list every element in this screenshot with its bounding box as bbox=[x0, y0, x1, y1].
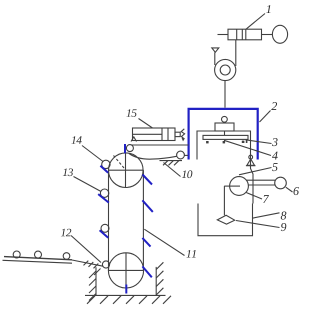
cylinder 15 piston line a bbox=[161, 128, 163, 141]
blue tick bottom pulley right bbox=[142, 266, 151, 277]
ramp end hatch 4 bbox=[94, 269, 101, 276]
roller 10 support hatch 3 bbox=[174, 161, 179, 166]
bucket circle mid bbox=[101, 224, 109, 232]
cylinder 15 body bbox=[133, 128, 176, 141]
left wall hatch 2 bbox=[89, 279, 96, 286]
exhaust triangle bbox=[212, 48, 219, 52]
label 3 bbox=[272, 138, 278, 146]
valve 1 body bbox=[228, 29, 262, 40]
baseline hatch 3 bbox=[113, 296, 121, 304]
ramp roller 3 bbox=[63, 253, 70, 260]
left wall hatch 1 bbox=[89, 271, 96, 278]
baseline hatch 7 bbox=[163, 296, 171, 304]
pointer 9 bbox=[236, 221, 280, 228]
baseline hatch 1 bbox=[87, 296, 95, 304]
bucket circle 13 bbox=[100, 189, 108, 197]
crank shaft down bbox=[223, 186, 225, 215]
roller 10 support hatch 2 bbox=[169, 161, 174, 166]
bottom pulley bbox=[108, 253, 143, 288]
bucket circle 14 bbox=[102, 160, 110, 168]
ramp roller 1 bbox=[13, 251, 20, 258]
cylinder 15 rod stub bbox=[175, 132, 180, 136]
valve U1 lead wire left bbox=[218, 34, 229, 36]
label 1 bbox=[266, 5, 270, 13]
support baseline bbox=[85, 294, 166, 296]
right wall hatch 2 bbox=[156, 271, 163, 278]
block on bar bbox=[215, 123, 234, 131]
ramp top line bbox=[4, 257, 72, 260]
right wall hatch 1 bbox=[156, 262, 163, 269]
top pulley horizontal diameter bbox=[109, 169, 144, 171]
baseline hatch 2 bbox=[100, 296, 108, 304]
pointer 6 bbox=[286, 187, 293, 192]
blue tick near bucket mid bbox=[100, 230, 109, 238]
valve 1 divider b bbox=[241, 29, 243, 40]
blue frame 2 bbox=[189, 109, 258, 160]
blue tick right belt 2 bbox=[142, 200, 152, 212]
bar roller dot 1 bbox=[206, 141, 209, 143]
label 13 bbox=[63, 168, 73, 176]
bucket circle top bbox=[126, 145, 133, 152]
ramp end hatch 1 bbox=[84, 261, 89, 266]
ramp roller 2 bbox=[35, 251, 42, 258]
roller 10 bbox=[177, 151, 185, 159]
roller 6 bbox=[275, 177, 287, 189]
pointer 8 bbox=[252, 213, 279, 218]
ramp bottom line bbox=[3, 260, 73, 263]
pointer 3 bbox=[246, 140, 272, 144]
pulley P1 outer bbox=[215, 59, 236, 80]
right wall hatch 3 bbox=[156, 279, 163, 286]
label 4 bbox=[272, 152, 278, 160]
link rod bottom bbox=[248, 184, 275, 186]
blue tick right belt 1 bbox=[143, 175, 153, 185]
label 8 bbox=[281, 212, 287, 220]
blue tick right belt 3 bbox=[142, 238, 150, 247]
knob ellipse bbox=[272, 25, 287, 43]
support left wall bbox=[95, 267, 97, 295]
crank radius line bbox=[224, 185, 240, 187]
valve 1 divider c bbox=[245, 29, 247, 40]
pulley P1 inner bbox=[220, 65, 230, 75]
rope down to loop bbox=[224, 81, 226, 108]
wire valve down to pulley bbox=[235, 40, 237, 66]
pointer 5 bbox=[239, 168, 272, 175]
roller 10 link to frame bbox=[184, 154, 188, 156]
roller 10 support line bbox=[160, 160, 183, 162]
trestle triangle bbox=[247, 159, 255, 165]
pointer 14 bbox=[82, 146, 103, 162]
baseline hatch 6 bbox=[152, 296, 160, 304]
blue tick near bucket 13 bbox=[98, 194, 109, 203]
cylinder 15 rod line bbox=[133, 133, 163, 135]
pointer 10 bbox=[164, 163, 181, 177]
link rod top bbox=[246, 179, 275, 181]
label 9 bbox=[281, 223, 286, 231]
label 12 bbox=[61, 229, 71, 237]
valve 1 divider a bbox=[236, 29, 238, 40]
valve 1 link to knob bbox=[262, 34, 273, 36]
pointer 11 bbox=[144, 229, 184, 255]
label 6 bbox=[293, 187, 298, 195]
roller 10 support hatch 1 bbox=[163, 161, 168, 166]
bottom pulley vertical diameter bbox=[125, 253, 127, 288]
cylinder pivot caret bbox=[131, 137, 137, 142]
bar roller dot 2 bbox=[223, 141, 226, 143]
label 2 bbox=[271, 102, 277, 110]
blue tick top pulley bbox=[124, 144, 126, 153]
agitator diamond bbox=[217, 215, 234, 224]
ramp descent line bbox=[72, 260, 103, 266]
pointer 13 bbox=[74, 177, 102, 192]
tank walls bbox=[198, 204, 253, 236]
spring zigzag bbox=[181, 129, 184, 139]
guide line under cylinder bbox=[132, 144, 189, 146]
label 15 bbox=[126, 109, 136, 117]
inner frame bbox=[197, 131, 253, 204]
label 5 bbox=[272, 163, 277, 171]
bar right hook bbox=[246, 139, 248, 143]
label 10 bbox=[182, 170, 192, 178]
belt left line bbox=[108, 170, 110, 270]
blue tick near bucket 14 bbox=[100, 166, 108, 173]
rope curve to roller 10 bbox=[129, 154, 177, 160]
label 14 bbox=[71, 136, 81, 144]
top pulley dashed radius bbox=[114, 156, 125, 169]
label 7 bbox=[263, 195, 269, 203]
blue tick below bottom pulley bbox=[125, 285, 127, 294]
spring arrowhead bbox=[182, 138, 185, 141]
block stem bbox=[224, 131, 226, 135]
crank circle 7 bbox=[230, 177, 249, 196]
top pulley bbox=[109, 153, 144, 188]
bottom pulley horizontal diameter bbox=[108, 269, 143, 271]
pointer 4 bbox=[224, 140, 271, 155]
trestle base bbox=[246, 165, 256, 167]
pointer 12 bbox=[71, 236, 101, 263]
bar roller dot 3 bbox=[242, 141, 245, 143]
left wall hatch 4 bbox=[89, 294, 96, 301]
bar (gripper beam) bbox=[203, 135, 248, 139]
support right wall bbox=[155, 267, 157, 296]
cylinder 15 piston line b bbox=[167, 128, 169, 141]
left wall hatch 3 bbox=[89, 286, 96, 293]
pointer 1 bbox=[246, 14, 265, 30]
baseline hatch 5 bbox=[139, 296, 147, 304]
exhaust stem wire bbox=[214, 52, 216, 65]
pointer 2 bbox=[260, 111, 271, 123]
ramp end hatch 2 bbox=[89, 262, 94, 267]
pointer 15 bbox=[139, 119, 153, 129]
bucket circle bottom bbox=[102, 261, 109, 268]
belt right line bbox=[142, 170, 144, 270]
top pulley vertical diameter bbox=[125, 153, 127, 188]
trestle circle bbox=[249, 155, 253, 159]
label 11 bbox=[186, 250, 195, 258]
suspension loop bbox=[222, 116, 228, 122]
baseline hatch 4 bbox=[126, 296, 134, 304]
right wall hatch 4 bbox=[156, 288, 163, 295]
ramp end hatch 3 bbox=[94, 264, 99, 269]
pointer 7 bbox=[246, 193, 262, 200]
